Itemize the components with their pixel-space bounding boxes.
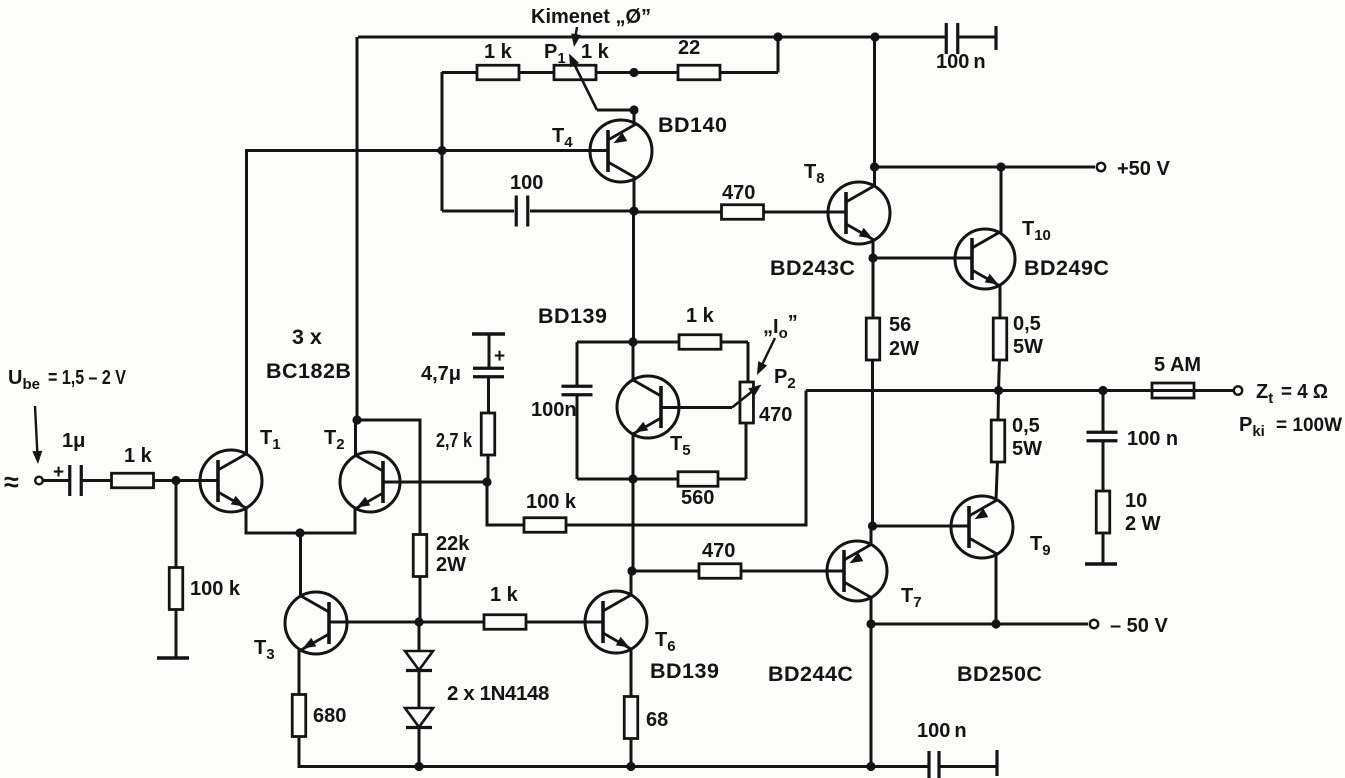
arrow Io pointing to P2 — [760, 338, 775, 369]
resistor R 0,5 5W lower — [991, 420, 1005, 462]
wire 100k branch down — [175, 481, 178, 569]
node output rail / 0.5 resistors — [994, 386, 1003, 395]
wire upper 0.5 to output rail — [999, 359, 1000, 390]
node T2 base / 2,7k / 100k feedback junction — [482, 477, 491, 486]
transistor T3 BC182B (NPN mirrored) — [285, 592, 347, 654]
node T5 cell bottom junction — [628, 474, 637, 483]
svg-text:68: 68 — [646, 709, 668, 731]
node bias node T3/22k/1k/diodes — [414, 617, 423, 626]
terminal input — [35, 477, 43, 485]
svg-text:– 50 V: – 50 V — [1110, 615, 1168, 637]
svg-text:0,5: 0,5 — [1012, 415, 1040, 437]
wire T3 emitter down to 680 — [298, 650, 301, 694]
svg-text:1 k: 1 k — [490, 584, 519, 606]
diode D1 1N4148 — [405, 651, 433, 670]
transistor T5 BD139 (NPN mirrored) — [617, 376, 679, 438]
svg-text:100 k: 100 k — [526, 491, 577, 513]
svg-text:= 4 Ω: = 4 Ω — [1281, 381, 1328, 403]
svg-text:100n: 100n — [531, 399, 577, 421]
resistor 22k 2W — [413, 535, 427, 577]
capacitor C 100 (T4 compensation) — [515, 196, 518, 227]
svg-text:22: 22 — [678, 37, 700, 59]
resistor R 56 2W — [866, 318, 880, 360]
wire T7 collector down through -50 rail to bottom rail — [870, 598, 873, 766]
wire feedback down-right — [487, 482, 523, 525]
svg-text:5 AM: 5 AM — [1154, 354, 1201, 376]
wire T2 collector node to 22k resistor top — [357, 420, 420, 534]
node T4 collector junction — [629, 206, 638, 215]
resistor R 560 — [678, 472, 718, 487]
potentiometer P2 470 body — [740, 382, 754, 423]
node bottom rail / 68 resistor — [626, 762, 635, 771]
resistor R 100k feedback — [524, 518, 566, 533]
wire feedback to output rail — [566, 391, 806, 526]
arrow input annotation — [35, 406, 38, 458]
capacitor C 100n zobel — [1087, 431, 1118, 434]
node output rail / zobel+fuse — [1098, 386, 1107, 395]
node -50 rail / T7 collector — [866, 619, 875, 628]
wire T3 collector up to emitter rail — [299, 533, 302, 596]
svg-text:2 W: 2 W — [1125, 513, 1161, 535]
wire T9 collector down to -50 rail — [995, 554, 998, 624]
node emitter rail / T3 collector — [295, 528, 304, 537]
svg-text:2,7 k: 2,7 k — [436, 430, 473, 452]
ground input 100k — [157, 656, 189, 660]
arrow Kimenet pointing to P1 wiper — [575, 27, 578, 42]
svg-text:1 k: 1 k — [581, 41, 610, 63]
wire T5 emitter down — [632, 434, 635, 479]
wire T3 base to bias node — [329, 621, 419, 624]
wire P1 wiper to T4 emitter node — [597, 109, 634, 112]
svg-text:470: 470 — [722, 182, 755, 204]
node T2 collector / 22k branch — [352, 415, 361, 424]
resistor R 470 (T7 base) — [699, 564, 741, 579]
wire 1k to T1 base — [153, 479, 218, 482]
wire zobel branch down — [1102, 391, 1105, 433]
svg-text:2W: 2W — [889, 338, 919, 360]
wire T8 collector vertical from top rail — [873, 37, 876, 186]
svg-text:BD139: BD139 — [650, 659, 719, 683]
wire 56-branch T8 emitter to T7 emitter/T9 base — [872, 258, 875, 319]
transistor T4 BD140 (PNP) — [590, 120, 652, 182]
wire output rail — [806, 389, 1233, 392]
node +50 rail / T10 collector — [996, 162, 1005, 171]
svg-text:22k: 22k — [436, 533, 470, 555]
wire T6 emitter to 68 — [630, 649, 633, 697]
capacitor C 4,7u electrolytic — [473, 367, 504, 370]
node T8 emitter / T10 base junction — [868, 253, 877, 262]
wire 22k bottom to T3 base node — [419, 577, 422, 622]
svg-text:0,5: 0,5 — [1013, 313, 1041, 335]
capacitor C 100n bottom — [927, 751, 930, 778]
wire 68 to bottom rail — [630, 738, 633, 766]
node junction top rail / T8 collector line — [870, 32, 879, 41]
transistor T9 BD250C (PNP) — [951, 496, 1013, 558]
potentiometer P1 wiper arrow — [573, 61, 598, 111]
resistor R 2,7k — [481, 413, 495, 455]
svg-text:56: 56 — [889, 314, 911, 336]
svg-text:= 1,5 – 2 V: = 1,5 – 2 V — [48, 367, 127, 389]
wire T10 base row — [873, 257, 972, 260]
node bottom rail / diode branch — [414, 762, 423, 771]
svg-text:BD243C: BD243C — [770, 256, 855, 280]
wire vertical from top rail down to T2 collector node — [356, 37, 359, 420]
wire center vertical T5 emitter to T6 collector node — [632, 479, 635, 571]
wire T9 base row — [873, 525, 970, 528]
svg-text:5W: 5W — [1013, 336, 1043, 358]
resistor R 1k (T5 cell) — [679, 335, 721, 350]
transistor T7 BD244C (PNP) — [827, 541, 887, 601]
svg-text:= 100W: = 100W — [1276, 415, 1342, 436]
wire cap to 1k — [81, 479, 112, 482]
wire T1 emitter to T2 emitter rail — [246, 508, 355, 533]
wire T10 emitter down to 0.5 resistor — [999, 286, 1002, 319]
svg-text:BD140: BD140 — [658, 113, 727, 137]
svg-text:100 n: 100 n — [936, 51, 986, 73]
transistor T1 BC182B (NPN) — [200, 450, 262, 512]
wire T8 emitter down / T10 base node — [872, 240, 875, 258]
svg-text:680: 680 — [313, 705, 346, 727]
svg-text:2W: 2W — [436, 554, 466, 576]
terminal output Zt — [1234, 386, 1242, 394]
node +50 rail / T8 collector — [870, 162, 879, 171]
fuse 5AM body — [1152, 383, 1194, 398]
svg-text:4,7μ: 4,7μ — [421, 363, 461, 385]
wire T5 collector up — [632, 342, 635, 380]
wire bottom rail right of cap — [939, 765, 997, 768]
ground zobel — [1085, 562, 1117, 566]
svg-text:BD250C: BD250C — [957, 662, 1042, 686]
transistor T10 BD249C (NPN) — [955, 229, 1015, 289]
svg-text:100 n: 100 n — [1127, 428, 1178, 450]
svg-text:1 k: 1 k — [124, 445, 153, 467]
wire T4 emitter node down into transistor — [633, 110, 636, 124]
svg-text:Kimenet „Ø”: Kimenet „Ø” — [531, 6, 651, 28]
svg-text:560: 560 — [681, 487, 714, 509]
resistor R 1k (T6 base) — [484, 615, 526, 630]
resistor R 0,5 5W upper — [993, 318, 1007, 360]
svg-text:1 k: 1 k — [686, 305, 715, 327]
resistor R 1k (left of P1) — [477, 65, 519, 80]
svg-text:≈: ≈ — [4, 467, 19, 497]
terminal -50 V — [1090, 620, 1098, 628]
wire bottom cap end bar — [995, 750, 998, 776]
svg-text:100 n: 100 n — [917, 720, 967, 742]
wire T10 collector up to +50 rail — [1000, 167, 1003, 234]
wire T2 base row to feedback node — [383, 481, 487, 484]
svg-text:470: 470 — [702, 540, 735, 562]
wire 100-cap row — [442, 210, 514, 213]
wire 470-to-T8 row — [634, 211, 722, 214]
capacitor C 100n T5 branch — [576, 342, 579, 386]
svg-text:1μ: 1μ — [62, 430, 85, 452]
svg-text:+: + — [494, 346, 505, 367]
transistor T6 BD139 (NPN) — [585, 591, 647, 653]
node T9 base / 56 branch junction — [868, 521, 877, 530]
wire T4 collector down to 100-cap node — [633, 178, 636, 211]
svg-text:100 k: 100 k — [190, 578, 241, 600]
svg-text:BC182B: BC182B — [266, 359, 351, 383]
wire T1 collector vertical to T4 base line — [247, 151, 609, 455]
svg-text:5W: 5W — [1012, 438, 1042, 460]
wire top cap right end bar — [994, 26, 997, 50]
capacitor C 1u input (polarized) — [68, 465, 71, 496]
capacitor C 100n top-right — [945, 23, 948, 54]
wire T7 emitter up to T9 base node — [870, 526, 873, 545]
wire top +rail from T2 collector line to top 100n cap — [358, 36, 946, 39]
ground 4,7u top bar — [472, 332, 505, 335]
node T5 cell top junction — [628, 337, 637, 346]
wire diode branch — [418, 622, 421, 651]
svg-text:BD139: BD139 — [538, 304, 607, 328]
svg-text:+50 V: +50 V — [1117, 158, 1170, 180]
node bottom rail / T7 collector — [866, 762, 875, 771]
node junction P1/22 row with T4 emitter branch — [629, 68, 638, 77]
wire lower 0.5 resistor branch — [997, 391, 1001, 422]
wire 1k bias to T6 base — [419, 621, 483, 624]
resistor R 10 2W — [1096, 491, 1110, 533]
wire T5 base to P2 wiper — [661, 406, 732, 409]
svg-text:3 x: 3 x — [292, 325, 322, 349]
terminal +50 V — [1097, 163, 1105, 171]
potentiometer P1 1k body — [554, 65, 596, 80]
wire T5 cell top row — [577, 341, 679, 344]
wire -50V rail — [871, 623, 1088, 626]
wire +50V rail — [875, 166, 1095, 169]
wire 680 to bottom rail — [299, 737, 929, 767]
resistor R 68 — [624, 697, 638, 739]
wire resistor row top — [442, 71, 477, 74]
svg-text:BD249C: BD249C — [1024, 256, 1109, 280]
wire 470-to-T7 row — [633, 570, 700, 573]
wire 2,7k branch — [487, 455, 490, 482]
transistor T8 BD243C (NPN) — [828, 182, 890, 244]
svg-text:BD244C: BD244C — [768, 662, 853, 686]
svg-text:1 k: 1 k — [484, 41, 513, 63]
svg-text:2 x 1N4148: 2 x 1N4148 — [447, 682, 549, 705]
svg-text:100: 100 — [510, 172, 543, 194]
resistor R 680 — [292, 695, 306, 737]
potentiometer P2 wiper arrow — [732, 388, 757, 408]
svg-text:470: 470 — [759, 404, 792, 426]
wire branch vertical P1-row to 100pF-row — [441, 72, 444, 211]
resistor R 1k input — [112, 473, 154, 488]
resistor R 100k input — [169, 568, 183, 610]
wire input to 1u cap — [43, 479, 70, 482]
wire T6 collector up to 470 node — [630, 571, 633, 595]
node T1 base / 100k junction — [171, 476, 180, 485]
node -50 rail / T9 collector — [991, 619, 1000, 628]
node junction top rail / 22-ohm branch — [773, 32, 782, 41]
wire center vertical T4 collector to T5 cell — [632, 211, 635, 342]
resistor R 470 (T8 base) — [722, 205, 764, 220]
wire T2 collector up — [354, 420, 357, 455]
resistor R 22 — [678, 65, 720, 80]
wire T5 cell bottom row — [577, 478, 678, 481]
node T4 base line / P1 branch junction — [437, 146, 446, 155]
svg-text:+: + — [53, 462, 64, 483]
diode D2 1N4148 — [405, 708, 433, 727]
node T6 collector / 470 junction — [627, 566, 636, 575]
transistor T2 BC182B (NPN mirrored) — [340, 452, 400, 512]
svg-text:10: 10 — [1125, 490, 1147, 512]
node T4 emitter junction — [629, 105, 638, 114]
